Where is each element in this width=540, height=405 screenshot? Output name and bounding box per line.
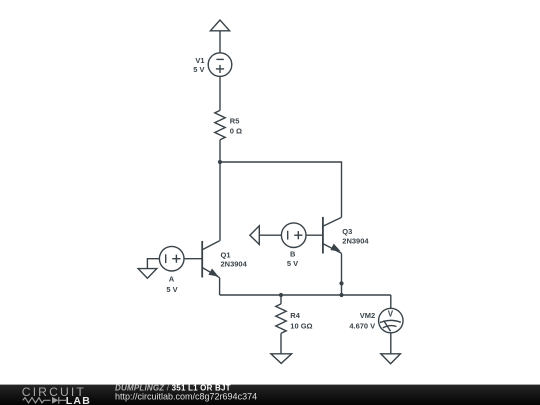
footer bar (0, 385, 540, 405)
wire VM2 to ground (390, 333, 392, 354)
svg-text:VM2: VM2 (360, 311, 375, 320)
svg-text:5 V: 5 V (287, 259, 298, 268)
svg-text:R4: R4 (290, 311, 300, 320)
svg-text:10 GΩ: 10 GΩ (290, 321, 312, 330)
ground for B (rotated left) (250, 226, 259, 245)
svg-text:R5: R5 (230, 117, 240, 126)
voltage source B (281, 223, 306, 248)
ground for A (138, 269, 157, 279)
node junction R5/collectors (218, 160, 222, 164)
transistor Q1 (202, 241, 219, 278)
svg-text:Q1: Q1 (221, 250, 231, 259)
svg-text:5 V: 5 V (193, 65, 204, 74)
wire R5 to node (219, 140, 221, 162)
svg-text:http://circuitlab.com/c8g72r69: http://circuitlab.com/c8g72r694c374 (115, 392, 257, 402)
voltmeter VM2 (379, 308, 404, 333)
logo diode (52, 397, 58, 404)
voltage source A (159, 246, 184, 271)
svg-text:4.670 V: 4.670 V (349, 321, 375, 330)
node junction R4/rail (279, 293, 283, 297)
svg-text:V: V (388, 309, 394, 318)
wire rail to R4 (280, 295, 282, 304)
svg-text:2N3904: 2N3904 (342, 237, 369, 246)
svg-text:5 V: 5 V (166, 285, 177, 294)
svg-text:V1: V1 (195, 56, 204, 65)
wire Q3 emitter down (341, 253, 343, 295)
node junction Q3 emitter (339, 281, 343, 285)
wire V1 to R5 (219, 76, 221, 110)
wire node to Q1 collector (219, 162, 221, 241)
wire A minus to ground (147, 259, 159, 269)
voltage source V1 (208, 53, 232, 77)
resistor R4 (276, 304, 286, 333)
ground below R4 (271, 354, 292, 364)
svg-text:Q3: Q3 (342, 227, 352, 236)
resistor R5 (215, 110, 225, 139)
wire rail to VM2 (390, 295, 392, 308)
power flag VCC (210, 20, 229, 31)
svg-text:B: B (290, 250, 296, 259)
transistor Q3 (323, 217, 342, 254)
wire R4 to ground (280, 333, 282, 354)
wire VCC to V1 (219, 31, 221, 53)
svg-text:A: A (169, 275, 175, 284)
svg-text:LAB: LAB (66, 395, 91, 405)
wire Q1 emitter down (219, 278, 221, 295)
logo resistor zigzag (23, 398, 51, 403)
svg-text:0 Ω: 0 Ω (230, 127, 242, 136)
wire bottom rail (220, 294, 391, 296)
wire A plus to Q1 base (184, 258, 202, 260)
ground below VM2 (381, 354, 401, 364)
wire node to Q3 collector (220, 162, 342, 217)
node junction emitter/rail (339, 293, 343, 297)
wire B minus to ground (259, 234, 281, 236)
svg-text:2N3904: 2N3904 (221, 260, 248, 269)
wire B plus to Q3 base (306, 234, 323, 236)
